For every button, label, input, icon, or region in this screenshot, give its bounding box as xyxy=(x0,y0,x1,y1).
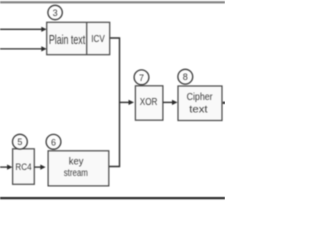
svg-text:6: 6 xyxy=(51,137,56,147)
svg-text:XOR: XOR xyxy=(140,97,158,108)
svg-text:3: 3 xyxy=(53,8,58,18)
svg-text:Plain text: Plain text xyxy=(49,33,86,47)
arrow RC4 to key stream xyxy=(34,165,45,170)
svg-text:ICV: ICV xyxy=(91,34,105,45)
circled 8 xyxy=(178,69,193,84)
svg-text:key: key xyxy=(69,157,84,168)
Cipher text box xyxy=(178,86,222,121)
circled 5 xyxy=(13,134,28,149)
wire: ICV output down to key stream junction xyxy=(109,38,120,167)
svg-text:5: 5 xyxy=(17,137,22,147)
arrow into Plain text (lower input) xyxy=(0,46,47,51)
arrow from junction into XOR xyxy=(120,100,135,105)
arrow into Plain text (upper input) xyxy=(0,27,47,32)
top page border line xyxy=(0,1,225,3)
bottom page border line xyxy=(0,197,225,199)
svg-text:RC4: RC4 xyxy=(15,162,31,172)
arrow XOR to Cipher text xyxy=(163,100,178,105)
circled 6 xyxy=(46,134,61,149)
svg-text:Cipher: Cipher xyxy=(187,92,214,103)
divider between Plain text and ICV xyxy=(86,22,88,54)
svg-text:7: 7 xyxy=(139,73,144,83)
key stream box xyxy=(48,151,109,186)
circled 3 xyxy=(48,5,62,19)
RC4 box xyxy=(13,149,35,185)
svg-text:8: 8 xyxy=(183,72,188,82)
arrow into RC4 xyxy=(0,165,12,170)
svg-text:stream: stream xyxy=(64,168,88,179)
circled 7 xyxy=(134,70,149,85)
plain text / ICV box xyxy=(47,22,110,54)
wire: cipher text output (clipped at right edge) xyxy=(223,102,225,104)
XOR box xyxy=(135,86,163,120)
svg-text:text: text xyxy=(189,104,208,115)
